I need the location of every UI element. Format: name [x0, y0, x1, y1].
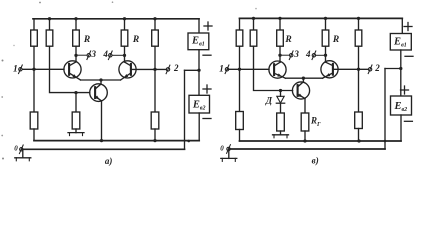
svg-text:0: 0	[14, 144, 18, 152]
svg-text:а): а)	[105, 156, 113, 166]
svg-text:3: 3	[293, 49, 299, 59]
svg-text:R: R	[332, 35, 339, 45]
svg-text:1: 1	[13, 64, 18, 74]
svg-text:R: R	[83, 35, 90, 45]
svg-text:R: R	[284, 35, 291, 45]
svg-text:в): в)	[312, 156, 319, 166]
svg-text:4: 4	[305, 49, 311, 59]
svg-text:2: 2	[173, 63, 179, 73]
svg-text:3: 3	[91, 49, 97, 59]
svg-text:2: 2	[374, 63, 380, 73]
svg-text:0: 0	[220, 145, 224, 153]
svg-text:R: R	[132, 35, 139, 45]
svg-text:Д: Д	[265, 95, 273, 105]
svg-text:1: 1	[219, 64, 224, 74]
svg-text:RГ: RГ	[310, 116, 321, 128]
svg-text:4: 4	[102, 49, 108, 59]
